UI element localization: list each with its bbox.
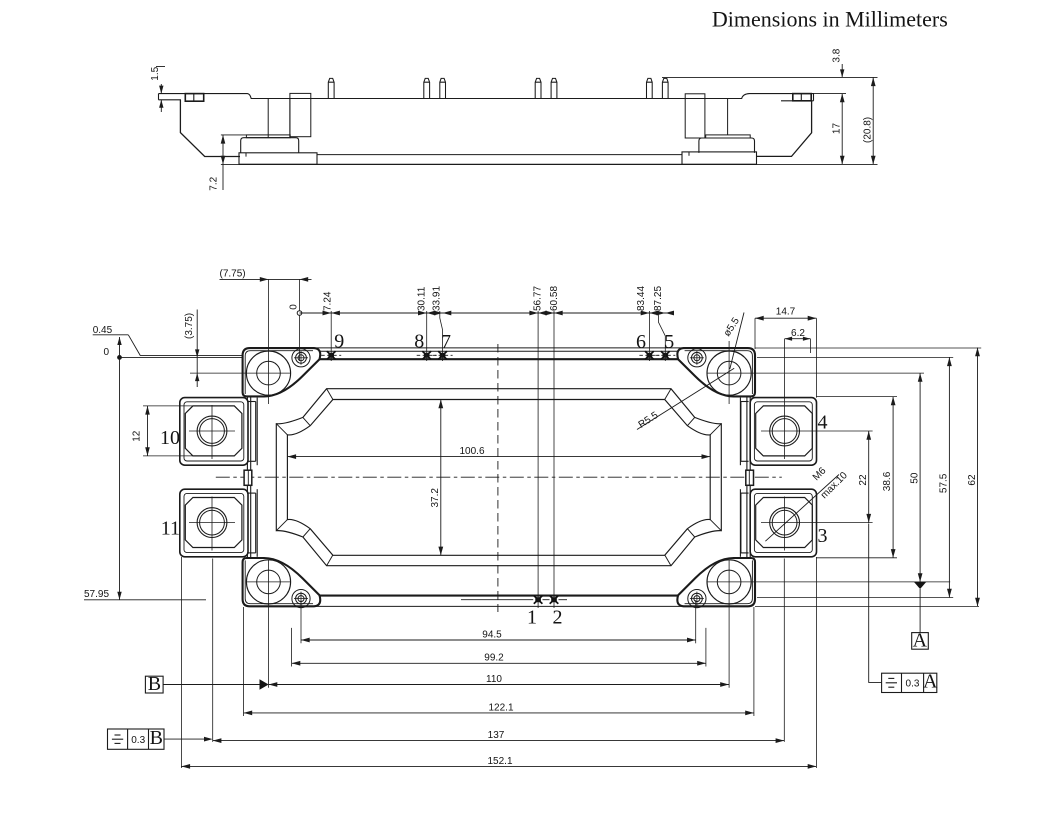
terminal 11 rail — [248, 492, 256, 494]
svg-text:87.25: 87.25 — [653, 286, 664, 311]
terminal 10 rail — [248, 401, 256, 403]
lid screw top-left — [292, 349, 310, 367]
ext 122.1 right — [753, 607, 755, 716]
dim 152.1 — [181, 765, 816, 767]
side view left clamp box — [185, 94, 203, 102]
ext 152.1 right — [815, 557, 817, 768]
side view left pedestal — [241, 138, 299, 153]
svg-text:3.8: 3.8 — [832, 48, 843, 62]
svg-text:14.7: 14.7 — [776, 307, 796, 318]
pin 9 extension — [330, 311, 332, 361]
dim 100.6 — [287, 456, 710, 458]
svg-text:Dimensions in Millimeters: Dimensions in Millimeters — [712, 6, 948, 31]
mounting hole top-left — [246, 351, 290, 395]
svg-text:A: A — [923, 671, 938, 693]
lid screw bottom-left — [292, 590, 310, 608]
lid screw top-right — [688, 349, 706, 367]
pin marker 1 — [534, 596, 543, 604]
svg-text:62: 62 — [967, 474, 978, 486]
dim 1.5 — [160, 84, 162, 94]
svg-text:7: 7 — [441, 331, 451, 353]
mounting hole top-right — [707, 351, 751, 395]
pin 5 extension — [658, 311, 665, 361]
dim (20.8) — [872, 77, 874, 164]
terminal 4 centrelines — [784, 339, 786, 459]
svg-text:122.1: 122.1 — [488, 702, 513, 713]
dim 122.1 — [244, 712, 754, 714]
frame 0.3 B — [108, 729, 165, 749]
side view left flange plate — [159, 99, 182, 101]
terminal 10 block — [180, 398, 248, 466]
svg-text:0.45: 0.45 — [93, 325, 113, 336]
pin 6 extension — [648, 311, 650, 361]
svg-text:1: 1 — [527, 607, 537, 629]
pin marker 9 — [327, 351, 336, 359]
pin 7 extension — [440, 311, 443, 361]
dim 57.5 — [948, 357, 950, 597]
side view right pedestal — [699, 138, 755, 153]
svg-text:0.3: 0.3 — [131, 735, 145, 746]
pin chain arrows — [323, 311, 332, 316]
ext 152.1 left — [180, 557, 182, 768]
svg-text:10: 10 — [160, 427, 180, 449]
svg-text:110: 110 — [486, 674, 502, 685]
bottom pin row line — [461, 599, 533, 601]
lid outer rim — [276, 389, 721, 566]
dim 14.7 — [754, 318, 756, 349]
ext 99.2 left — [291, 628, 293, 667]
svg-text:100.6: 100.6 — [459, 446, 484, 457]
svg-text:33.91: 33.91 — [432, 286, 443, 311]
vertical centreline — [497, 344, 499, 612]
terminal 10 centrelines — [211, 405, 213, 459]
svg-text:60.58: 60.58 — [549, 286, 560, 311]
svg-text:1.5: 1.5 — [150, 66, 161, 80]
svg-text:50: 50 — [910, 472, 921, 484]
dim 62 — [977, 348, 979, 607]
svg-text:3: 3 — [818, 525, 828, 547]
svg-text:8: 8 — [414, 330, 424, 352]
side view right tower — [685, 94, 705, 138]
case skirt top lines — [314, 347, 684, 349]
terminal 4 rail — [741, 401, 749, 403]
lobe bottom-left — [243, 558, 321, 606]
svg-text:57.95: 57.95 — [84, 589, 109, 600]
dim 110 — [269, 684, 729, 686]
pin marker 6 — [645, 351, 654, 359]
frame 0.3 A leader — [869, 524, 882, 683]
dim 94.5 — [301, 639, 696, 641]
left case notch — [244, 470, 252, 485]
side view baseplate slab top — [317, 154, 682, 156]
svg-text:0.3: 0.3 — [906, 679, 920, 690]
svg-text:30.11: 30.11 — [417, 286, 428, 311]
pin marker 7 — [438, 351, 447, 359]
svg-text:22: 22 — [858, 474, 869, 486]
ext 94.5 right — [695, 600, 697, 643]
ext 99.2 right — [705, 628, 707, 667]
dim 50 — [919, 373, 921, 582]
svg-text:B: B — [150, 727, 163, 749]
datum A symbol — [914, 582, 926, 589]
svg-text:6: 6 — [636, 331, 646, 353]
ext lobe top right — [755, 347, 981, 349]
side view pins — [328, 78, 668, 98]
svg-text:83.44: 83.44 — [636, 286, 647, 311]
svg-text:0: 0 — [288, 304, 299, 310]
svg-text:(3.75): (3.75) — [184, 313, 195, 339]
side view left tower — [267, 99, 269, 138]
svg-text:0: 0 — [104, 347, 110, 358]
side view right clamp box — [793, 94, 811, 101]
dim 99.2 — [292, 662, 706, 664]
svg-text:94.5: 94.5 — [482, 629, 502, 640]
terminal 11 centrelines — [211, 497, 213, 551]
ext body bottom right — [757, 597, 953, 599]
ext lobe bottom right — [755, 605, 979, 607]
pin marker 2 — [550, 596, 559, 604]
svg-text:12: 12 — [132, 430, 143, 442]
side view top outline — [159, 94, 814, 101]
dim 3.8 — [662, 76, 878, 78]
svg-text:6.2: 6.2 — [791, 328, 805, 339]
svg-text:7.24: 7.24 — [323, 291, 334, 311]
dim 12 — [143, 405, 196, 407]
svg-text:56.77: 56.77 — [533, 286, 544, 311]
pin 8 extension — [426, 311, 428, 361]
svg-text:2: 2 — [553, 607, 563, 629]
mounting hole bottom-left — [246, 560, 290, 604]
body top edge — [320, 358, 679, 360]
lobe bottom-right — [677, 558, 755, 606]
side view right pad — [682, 152, 757, 165]
side view left pad — [239, 153, 317, 165]
ext 94.5 left — [300, 600, 302, 643]
mounting hole bottom-right — [707, 560, 751, 604]
datum B — [145, 676, 163, 693]
dim 37.2 — [440, 400, 442, 556]
svg-text:37.2: 37.2 — [430, 488, 441, 508]
svg-text:(20.8): (20.8) — [862, 117, 873, 143]
pin marker 8 — [422, 351, 431, 359]
case side walls — [246, 396, 248, 558]
svg-text:57.5: 57.5 — [939, 473, 950, 493]
svg-text:5: 5 — [664, 331, 674, 353]
dim 22 — [868, 431, 870, 523]
lid bevel facets — [276, 389, 721, 566]
ext block3 bottom — [817, 557, 898, 559]
side view baseplate bottom — [239, 163, 757, 165]
ext body top right — [757, 356, 953, 358]
lobe top-left — [243, 348, 321, 396]
svg-text:B: B — [148, 673, 161, 695]
dim 38.6 — [892, 397, 894, 558]
lobe inner lines — [245, 351, 313, 394]
horizontal centreline — [216, 476, 782, 478]
dim 137 — [213, 740, 785, 742]
dim 17 — [814, 93, 847, 95]
terminal 4 block — [750, 398, 816, 466]
side view left case edge — [180, 100, 240, 157]
svg-text:9: 9 — [334, 330, 344, 352]
pin chain baseline — [300, 312, 674, 314]
svg-text:(7.75): (7.75) — [220, 269, 246, 280]
dim 7.2 — [221, 134, 247, 136]
dim 6.2 — [809, 339, 811, 353]
pin ref 0 line — [299, 279, 301, 361]
dim (3.75) — [196, 310, 198, 388]
pin 1 extension — [537, 311, 539, 608]
side view right case edge — [757, 101, 812, 157]
hole centrelines — [268, 279, 270, 404]
terminal 3 centrelines — [784, 497, 786, 551]
svg-text:152.1: 152.1 — [487, 756, 512, 767]
lobe top-right — [677, 348, 755, 396]
dim (7.75) — [220, 278, 312, 280]
frame 0.3 A — [882, 673, 937, 692]
svg-text:17: 17 — [832, 123, 843, 135]
right case notch — [746, 470, 754, 485]
svg-text:7.2: 7.2 — [209, 176, 220, 190]
svg-text:99.2: 99.2 — [484, 653, 504, 664]
body bottom edge — [320, 595, 679, 597]
svg-text:137: 137 — [488, 730, 505, 741]
pin 2 extension — [553, 311, 555, 608]
terminal 11 block — [180, 489, 248, 557]
svg-text:11: 11 — [161, 518, 180, 540]
pin marker 5 — [661, 351, 670, 359]
svg-text:4: 4 — [818, 412, 828, 434]
svg-text:38.6: 38.6 — [882, 471, 893, 491]
ext block4 top — [817, 396, 898, 398]
ext 122.1 left — [243, 607, 245, 716]
svg-text:A: A — [913, 629, 928, 651]
lid inner plateau — [287, 400, 710, 556]
lid screw bottom-right — [688, 590, 706, 608]
terminal 3 block — [750, 489, 816, 557]
terminal 3 rail — [741, 492, 749, 494]
case skirt bottom line — [314, 605, 684, 607]
